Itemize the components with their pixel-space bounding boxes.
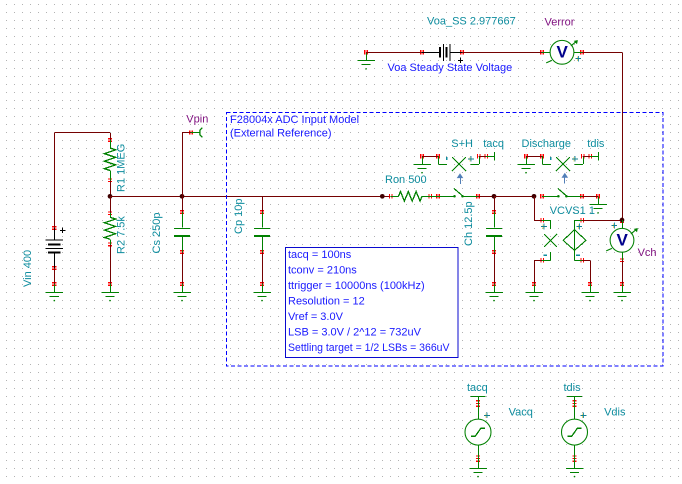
svg-text:Discharge: Discharge [522, 138, 572, 150]
wire [622, 260, 624, 284]
svg-text:LSB = 3.0V / 2^12 = 732uV: LSB = 3.0V / 2^12 = 732uV [288, 326, 422, 338]
switch Discharge [542, 188, 582, 197]
resistor R2 [104, 196, 115, 284]
capacitor Ch [485, 196, 503, 301]
battery Vin [46, 133, 66, 284]
wire (Discharge control minus) [526, 156, 542, 158]
resistor R1 [104, 140, 115, 196]
ground [101, 284, 119, 301]
pin connection markers [52, 50, 624, 462]
wire [582, 196, 598, 198]
svg-text:tdis: tdis [587, 138, 605, 150]
node junction (Vch) [620, 218, 625, 223]
ground [581, 284, 599, 301]
wire (VCVS output bottom to ground) [582, 260, 590, 284]
svg-text:Vch: Vch [638, 247, 657, 259]
svg-text:tacq = 100ns: tacq = 100ns [288, 249, 352, 261]
voltmeter Verror [542, 40, 582, 64]
node tdis (jumper bar) [598, 152, 600, 161]
svg-text:tacq: tacq [483, 138, 504, 150]
svg-text:V: V [557, 43, 569, 62]
node tacq (jumper bar) [494, 152, 496, 161]
resistor Ron 500 [391, 192, 438, 202]
battery Voa_SS (Voa Steady State Voltage source) [422, 44, 463, 63]
ground [469, 460, 487, 477]
svg-text:Vacq: Vacq [509, 407, 533, 419]
node junction (Ch) [492, 194, 497, 199]
svg-text:R2 7.5k: R2 7.5k [116, 216, 128, 254]
svg-text:Verror: Verror [545, 17, 575, 29]
wire [54, 133, 110, 141]
node tacq (jumper bar) [470, 396, 485, 398]
S+H control port (X symbol with brackets) [439, 156, 480, 171]
switch S+H (sample and hold) [438, 188, 478, 197]
node tdis (jumper bar) [567, 396, 582, 398]
ground (Discharge control minus) [517, 156, 535, 173]
source Vacq (piecewise linear) [465, 397, 491, 469]
ground [566, 460, 584, 477]
switch control arrow (Discharge) [562, 173, 569, 184]
ground (S+H control minus) [413, 156, 431, 173]
svg-text:Vdis: Vdis [604, 407, 626, 419]
pin Vpin (I/O terminal) [191, 128, 202, 138]
node A junction (R1/R2) [108, 194, 113, 199]
svg-text:R1 1MEG: R1 1MEG [116, 144, 128, 192]
switch control arrow (S+H) [457, 173, 464, 184]
svg-text:(External Reference): (External Reference) [230, 128, 332, 140]
dependent source VCVS1 (diamond) [563, 220, 586, 260]
ground [46, 284, 64, 301]
wire main rail [110, 196, 390, 198]
svg-text:Vref = 3.0V: Vref = 3.0V [288, 311, 344, 323]
wire [462, 52, 542, 54]
svg-text:Voa Steady State Voltage: Voa Steady State Voltage [388, 62, 513, 74]
wire (VCVS control plus) [534, 196, 542, 220]
wire (VCVS output top to Vch node) [582, 220, 622, 222]
capacitor Cs [173, 196, 191, 301]
wire (S+H control minus) [422, 156, 438, 158]
annotation text box (ADC parameters) [286, 248, 459, 358]
svg-text:tconv = 210ns: tconv = 210ns [288, 265, 357, 277]
node junction (Ron input) [380, 194, 385, 199]
ground [613, 284, 631, 301]
wire [494, 196, 534, 198]
svg-text:ttrigger = 10000ns (100kHz): ttrigger = 10000ns (100kHz) [288, 280, 425, 292]
ground (discharge sink) [589, 196, 607, 213]
svg-text:Vpin: Vpin [186, 114, 208, 126]
svg-text:S+H: S+H [451, 138, 473, 150]
svg-text:Voa_SS 2.977667: Voa_SS 2.977667 [427, 15, 516, 27]
source Vdis (piecewise linear) [562, 397, 588, 469]
ground [357, 52, 375, 69]
capacitor Cp [253, 196, 271, 301]
svg-text:Ron 500: Ron 500 [385, 174, 427, 186]
wire (S+H control plus to tacq) [479, 156, 494, 158]
VCVS1 control input port (X) [541, 220, 557, 260]
svg-text:F28004x ADC Input Model: F28004x ADC Input Model [230, 114, 359, 126]
svg-text:V: V [617, 231, 629, 250]
node junction (discharge branch) [532, 194, 537, 199]
svg-text:VCVS1 1: VCVS1 1 [550, 205, 595, 217]
svg-text:Vin 400: Vin 400 [22, 250, 34, 287]
wire [478, 196, 494, 198]
voltmeter Vch [606, 220, 638, 260]
wire [582, 52, 623, 220]
wire Vpin tap [182, 133, 191, 197]
svg-text:Settling target = 1/2 LSBs = 3: Settling target = 1/2 LSBs = 366uV [288, 342, 450, 354]
svg-text:tdis: tdis [564, 382, 582, 394]
wire [366, 52, 422, 54]
svg-text:Cs 250p: Cs 250p [151, 213, 163, 254]
Discharge control port (X symbol with brackets) [543, 156, 584, 171]
svg-text:Cp 10p: Cp 10p [233, 199, 245, 234]
ground [525, 284, 543, 301]
ADC input model dashed boundary box [227, 113, 664, 367]
wire (VCVS control minus to ground) [534, 260, 542, 284]
wire (Discharge control plus to tdis) [583, 156, 598, 158]
node junction (Cs / Vpin tap) [180, 194, 185, 199]
svg-text:Resolution = 12: Resolution = 12 [288, 296, 365, 308]
svg-text:Ch 12.5p: Ch 12.5p [463, 201, 475, 246]
svg-text:tacq: tacq [467, 382, 488, 394]
